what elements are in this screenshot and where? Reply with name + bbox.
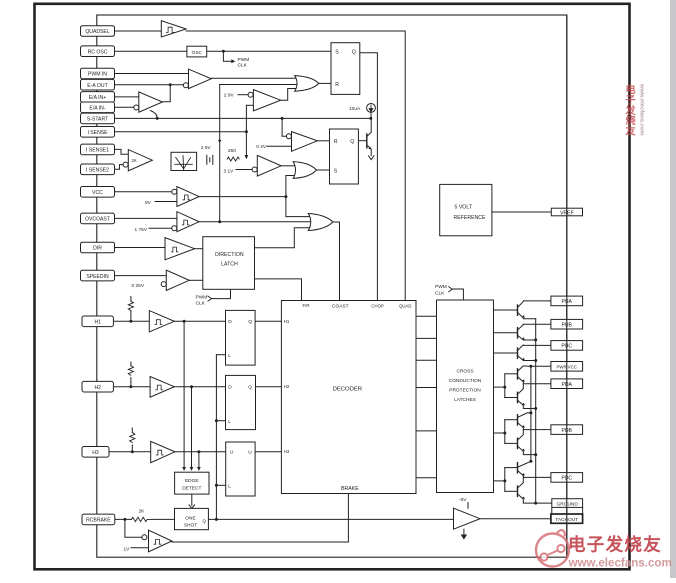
svg-text:Q: Q [352,50,356,56]
svg-text:S: S [335,50,339,56]
svg-text:1V: 1V [124,546,131,552]
svg-text:D: D [228,319,232,325]
svg-text:0 2V: 0 2V [256,144,267,150]
svg-text:CONDUCTION: CONDUCTION [449,378,482,384]
svg-text:Q: Q [248,319,252,325]
svg-text:L: L [228,484,231,490]
svg-text:RCBRAKE: RCBRAKE [86,518,111,524]
svg-text:Q: Q [248,384,252,390]
svg-text:L: L [228,353,231,359]
svg-text:BRAKE: BRAKE [341,486,359,492]
svg-text:PDA: PDA [561,382,572,388]
svg-text:OVCOAST: OVCOAST [85,217,110,223]
svg-text:D: D [228,384,232,390]
svg-text:250: 250 [228,148,236,154]
svg-text:PWM: PWM [196,294,208,300]
svg-text:-5V: -5V [459,497,467,503]
svg-text:H3: H3 [284,449,290,454]
svg-text:PROTECTION: PROTECTION [449,387,481,393]
svg-text:H1: H1 [284,319,290,324]
svg-text:QUADSEL: QUADSEL [85,29,110,35]
svg-text:VREF: VREF [560,210,574,216]
svg-text:10uA: 10uA [349,106,361,112]
svg-text:2K: 2K [139,508,146,514]
svg-text:LATCHES: LATCHES [454,397,476,403]
svg-text:2 9V: 2 9V [224,93,235,99]
svg-text:ONE: ONE [185,516,195,522]
svg-text:GROUND: GROUND [557,501,579,507]
svg-text:R: R [335,82,339,88]
svg-text:E-A OUT: E-A OUT [87,83,107,89]
svg-text:I SENSE2: I SENSE2 [86,168,109,174]
svg-text:OSC: OSC [192,50,203,56]
svg-text:EDGE: EDGE [185,478,199,484]
svg-text:PWM: PWM [238,57,250,63]
svg-text:U: U [230,450,234,456]
svg-text:PDB: PDB [561,428,572,434]
svg-text:U: U [248,450,252,456]
svg-text:E/A IN-: E/A IN- [89,106,105,112]
svg-text:PWM: PWM [435,284,447,290]
svg-text:VCC: VCC [92,190,103,196]
svg-text:CLK: CLK [435,291,445,297]
svg-text:DECODER: DECODER [333,386,362,392]
svg-text:S: S [334,168,338,174]
svg-text:REFERENCE: REFERENCE [454,215,487,221]
svg-text:1 75V: 1 75V [135,227,148,233]
svg-text:5 VOLT: 5 VOLT [455,204,473,210]
svg-text:SPEEDIN: SPEEDIN [86,274,109,280]
svg-text:Q: Q [350,139,354,145]
svg-text:S-START: S-START [87,117,108,123]
svg-text:PWR VCC: PWR VCC [557,364,577,369]
svg-text:CLK: CLK [238,63,248,69]
svg-text:CLK: CLK [196,301,206,307]
svg-text:PUA: PUA [561,299,572,305]
svg-text:E/A IN+: E/A IN+ [89,95,106,101]
svg-text:H3: H3 [92,450,99,456]
svg-text:DIRECTION: DIRECTION [215,252,244,258]
svg-text:3 1V: 3 1V [224,168,235,174]
svg-text:I SENSE1: I SENSE1 [86,148,109,154]
svg-text:2K: 2K [132,158,137,163]
svg-text:DETECT: DETECT [182,485,201,491]
svg-text:www.elecfans.com: www.elecfans.com [568,557,672,570]
svg-text:R: R [334,139,338,145]
svg-text:2 5V: 2 5V [201,145,212,151]
svg-text:0 25V: 0 25V [132,283,145,289]
svg-text:LATCH: LATCH [221,262,238,268]
svg-text:I SENSE: I SENSE [87,130,108,136]
svg-text:RC OSC: RC OSC [88,49,108,55]
svg-text:H2: H2 [94,385,101,391]
svg-text:www.elecfans.com: www.elecfans.com [639,83,645,136]
svg-text:CROSS: CROSS [456,368,473,374]
svg-text:PDC: PDC [561,476,572,482]
svg-text:CHOP: CHOP [371,304,384,309]
svg-text:COAST: COAST [332,304,349,310]
svg-text:PUB: PUB [561,323,572,329]
svg-text:QUAD: QUAD [399,304,411,309]
svg-text:PWM IN: PWM IN [88,72,107,78]
svg-text:电子发烧友: 电子发烧友 [568,535,662,555]
svg-text:电子发烧友: 电子发烧友 [624,83,636,138]
svg-text:DIR: DIR [93,246,102,252]
svg-text:PUC: PUC [561,344,572,350]
svg-text:H2: H2 [284,384,290,389]
svg-text:L: L [228,419,231,425]
svg-text:TACHOUT: TACHOUT [555,517,578,523]
svg-text:9V: 9V [145,200,152,206]
svg-text:F/R: F/R [303,303,310,308]
svg-text:H1: H1 [94,320,101,326]
svg-text:SHOT: SHOT [184,523,197,529]
